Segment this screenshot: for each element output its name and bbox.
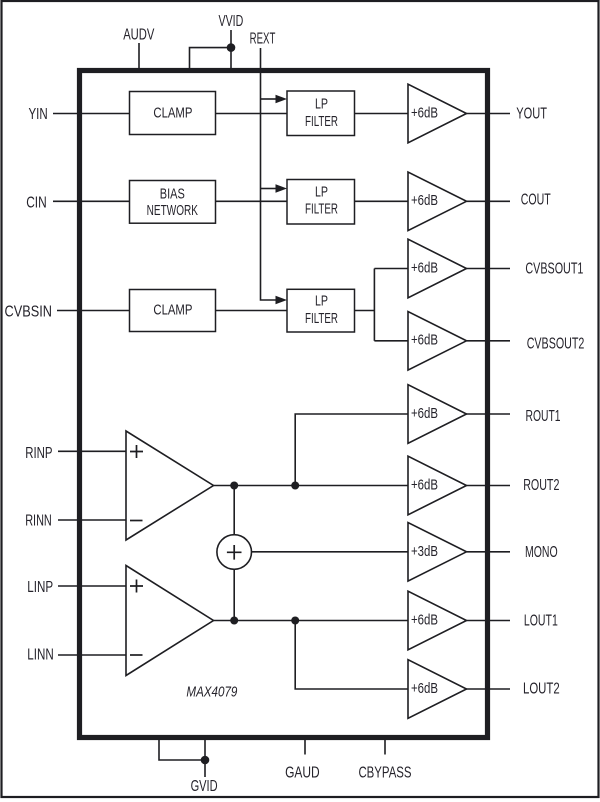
wire summer to amp MONO bbox=[252, 551, 408, 553]
wire CLAMP to LP FILTER 1 bbox=[216, 113, 288, 115]
svg-text:CLAMP: CLAMP bbox=[153, 303, 192, 319]
pin stub GVID with bracket bbox=[159, 738, 205, 761]
wire summer down to L line bbox=[233, 569, 235, 620]
svg-text:LP: LP bbox=[315, 294, 328, 310]
wire L amp output line bbox=[214, 620, 409, 622]
svg-text:LP: LP bbox=[315, 184, 328, 200]
chip body MAX4079 bbox=[80, 71, 488, 738]
amp LOUT2 +6dB bbox=[408, 660, 467, 719]
wire branch down to amp LOUT2 bbox=[295, 621, 408, 690]
svg-text:+6dB: +6dB bbox=[411, 192, 438, 209]
wire CVBSIN to CLAMP 2 bbox=[57, 310, 130, 312]
minus mark R amp bbox=[130, 520, 143, 522]
wire LINN input bbox=[58, 654, 126, 656]
svg-text:FILTER: FILTER bbox=[305, 311, 338, 327]
wire amp to LOUT2 pin bbox=[467, 688, 511, 690]
svg-text:FILTER: FILTER bbox=[305, 202, 338, 218]
svg-text:BIAS: BIAS bbox=[160, 186, 185, 202]
svg-text:FILTER: FILTER bbox=[305, 114, 338, 130]
amp MONO +3dB bbox=[408, 523, 467, 582]
pin stub AUDV bbox=[138, 43, 140, 71]
wire REXT tap to LP FILTER 2 bbox=[261, 188, 277, 190]
svg-text:MONO: MONO bbox=[525, 544, 558, 561]
wire CLAMP 2 to LP FILTER 3 bbox=[216, 310, 288, 312]
svg-text:YOUT: YOUT bbox=[516, 106, 547, 123]
wire LP FILTER 1 to amp YOUT bbox=[355, 113, 409, 115]
svg-text:+6dB: +6dB bbox=[411, 680, 438, 697]
junction dot ROUT1 branch bbox=[291, 482, 299, 490]
arrow into LP FILTER 1 bbox=[276, 95, 288, 104]
wire amp to YOUT pin bbox=[467, 113, 511, 115]
wire BIAS NETWORK to LP FILTER 2 bbox=[216, 200, 288, 202]
svg-text:LP: LP bbox=[315, 97, 328, 113]
block CLAMP (CVBS) bbox=[130, 290, 216, 332]
wire R node down to summer bbox=[233, 486, 235, 535]
pin stub CBYPASS bbox=[384, 740, 386, 755]
block CLAMP (Y) bbox=[130, 92, 216, 135]
wire amp to ROUT2 pin bbox=[467, 485, 511, 487]
op-amp and summer plus/minus marks bbox=[130, 445, 242, 655]
junction dot L output bbox=[230, 617, 238, 625]
wire amp to CVBSOUT1 pin bbox=[467, 268, 511, 270]
op-amp R channel bbox=[126, 431, 214, 540]
wire amp to LOUT1 pin bbox=[467, 620, 511, 622]
svg-text:RINP: RINP bbox=[25, 445, 52, 462]
svg-text:CVBSIN: CVBSIN bbox=[5, 304, 53, 321]
amp COUT +6dB bbox=[408, 172, 467, 231]
svg-text:+6dB: +6dB bbox=[411, 612, 438, 629]
wire LP FILTER 2 to amp COUT bbox=[355, 200, 409, 202]
wire split to amp CVBSOUT2 bbox=[374, 340, 408, 342]
svg-text:+6dB: +6dB bbox=[411, 476, 438, 493]
wire REXT tap to LP FILTER 1 bbox=[261, 98, 277, 100]
block LP FILTER 1 bbox=[287, 91, 355, 136]
junction dot VVID bbox=[227, 43, 236, 52]
wire CIN to BIAS NETWORK bbox=[53, 200, 130, 202]
plus mark summer bbox=[227, 545, 242, 560]
amp CVBSOUT1 +6dB bbox=[408, 239, 467, 298]
pin stub VVID with bracket bbox=[230, 30, 232, 71]
amp ROUT2 +6dB bbox=[408, 456, 467, 515]
wire amp to COUT pin bbox=[467, 200, 511, 202]
junction dot R output bbox=[230, 482, 238, 490]
svg-text:+3dB: +3dB bbox=[411, 543, 438, 560]
minus mark L amp bbox=[130, 654, 143, 656]
svg-text:LINP: LINP bbox=[27, 579, 53, 596]
svg-text:AUDV: AUDV bbox=[123, 26, 155, 43]
BLOCKS bbox=[130, 91, 355, 332]
summer circle bbox=[217, 535, 252, 570]
svg-text:MAX4079: MAX4079 bbox=[186, 683, 238, 700]
svg-text:COUT: COUT bbox=[521, 192, 551, 209]
svg-text:CVBSOUT2: CVBSOUT2 bbox=[527, 336, 585, 353]
svg-text:CVBSOUT1: CVBSOUT1 bbox=[525, 261, 583, 278]
svg-text:ROUT1: ROUT1 bbox=[526, 408, 561, 425]
svg-text:+6dB: +6dB bbox=[411, 405, 438, 422]
amp CVBSOUT2 +6dB bbox=[408, 312, 467, 371]
amp LOUT1 +6dB bbox=[408, 591, 467, 650]
arrow into LP FILTER 2 bbox=[276, 184, 288, 193]
arrow into LP FILTER 3 bbox=[276, 296, 288, 305]
svg-text:+6dB: +6dB bbox=[411, 260, 438, 277]
wire RINP input bbox=[58, 450, 126, 452]
svg-text:LOUT1: LOUT1 bbox=[524, 613, 558, 630]
wire RINN input bbox=[58, 519, 126, 521]
block BIAS NETWORK bbox=[130, 181, 216, 224]
block LP FILTER 2 bbox=[287, 180, 355, 225]
svg-text:+6dB: +6dB bbox=[411, 332, 438, 349]
wire split vertical bbox=[373, 269, 375, 341]
wire YIN to CLAMP bbox=[53, 113, 130, 115]
plus mark L amp bbox=[130, 580, 143, 593]
junction dot GVID bbox=[201, 756, 210, 765]
AMPLIFIER TRIANGLES right column bbox=[126, 84, 467, 718]
amp YOUT +6dB bbox=[408, 84, 467, 143]
junction dot LOUT2 branch bbox=[291, 617, 299, 625]
op-amp L channel bbox=[126, 566, 214, 676]
wire split to amp CVBSOUT1 bbox=[374, 268, 408, 270]
svg-text:VVID: VVID bbox=[219, 13, 244, 30]
svg-text:CBYPASS: CBYPASS bbox=[358, 764, 411, 781]
wire amp to CVBSOUT2 pin bbox=[467, 340, 511, 342]
svg-text:+6dB: +6dB bbox=[411, 104, 438, 121]
pin stub GAUD bbox=[304, 740, 306, 755]
block LP FILTER 3 bbox=[287, 289, 355, 332]
svg-text:REXT: REXT bbox=[250, 31, 276, 48]
wire amp to MONO pin bbox=[467, 551, 511, 553]
svg-text:YIN: YIN bbox=[29, 106, 48, 123]
svg-text:NETWORK: NETWORK bbox=[147, 203, 198, 219]
svg-text:RINN: RINN bbox=[25, 513, 52, 530]
ARROWHEADS into LP filters bbox=[201, 43, 300, 764]
wire R amp output line bbox=[214, 485, 409, 487]
svg-text:CLAMP: CLAMP bbox=[153, 105, 192, 121]
svg-text:LINN: LINN bbox=[27, 647, 53, 664]
svg-text:LOUT2: LOUT2 bbox=[523, 681, 560, 698]
svg-text:GAUD: GAUD bbox=[285, 764, 320, 781]
plus mark R amp bbox=[130, 445, 143, 458]
wire LINP input bbox=[58, 585, 126, 587]
svg-text:CIN: CIN bbox=[26, 194, 47, 211]
svg-text:GVID: GVID bbox=[191, 778, 218, 795]
wire REXT vertical bus bbox=[261, 48, 277, 300]
wire branch up to amp ROUT1 bbox=[295, 414, 408, 486]
wire amp to ROUT1 pin bbox=[467, 413, 511, 415]
wire LP FILTER 3 to split node bbox=[355, 310, 375, 312]
amp ROUT1 +6dB bbox=[408, 385, 467, 444]
svg-text:ROUT2: ROUT2 bbox=[523, 477, 559, 494]
